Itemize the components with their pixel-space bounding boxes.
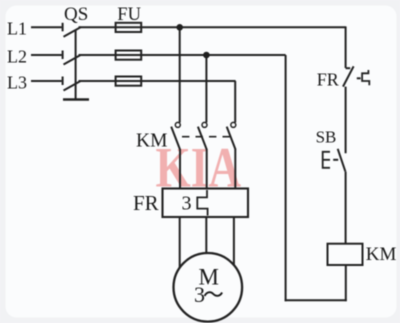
contactor KM main contact 2 terminal circle — [202, 122, 207, 127]
svg-text:SB: SB — [316, 128, 337, 147]
wire FR box to motor phase 1 — [179, 216, 181, 268]
svg-text:L1: L1 — [7, 19, 27, 39]
push button SB actuator dash — [333, 159, 338, 161]
switch QS pole 2 contact tick — [62, 51, 64, 60]
wire bottom run of control circuit — [285, 299, 347, 301]
wire FR contact to SB button — [345, 87, 347, 154]
push button SB blade — [338, 149, 346, 172]
push button SB actuator E — [323, 152, 330, 168]
wire SB button to KM coil — [345, 172, 347, 244]
contactor KM main contact 1 blade — [171, 127, 180, 150]
wire contact 2 to FR box — [206, 149, 208, 190]
switch QS pole 3 blade — [64, 81, 82, 91]
label tilde of 3~ — [205, 292, 223, 296]
wire contact 1 to FR box — [179, 149, 181, 190]
svg-text:L2: L2 — [7, 46, 27, 66]
wire L1 left segment — [31, 26, 62, 28]
wire left vertical of control circuit — [285, 55, 287, 301]
contactor KM main contact 1 terminal circle — [175, 122, 180, 127]
motor M circle — [174, 253, 243, 322]
switch QS pole 2 blade — [64, 55, 82, 65]
relay contact FR fixed terminal tick — [346, 67, 351, 69]
fuse FU 3 — [116, 77, 142, 86]
switch QS pole 3 contact tick — [62, 77, 64, 86]
svg-text:FR: FR — [317, 70, 339, 90]
wire control branch down from L1 corner to FR contact — [345, 26, 347, 68]
wire L3 from QS through FU to corner — [79, 80, 236, 82]
switch QS pole 1 contact tick — [62, 23, 64, 32]
svg-text:3: 3 — [182, 193, 192, 215]
fuse FU 2 — [116, 51, 142, 60]
contactor KM mechanical link dashes — [182, 136, 232, 138]
node junction L1/control branch — [176, 24, 183, 31]
wire L2 from QS through FU to control branch corner — [79, 54, 286, 56]
relay contact FR blade — [343, 66, 354, 86]
relay contact FR actuator symbol — [362, 70, 369, 85]
svg-text:KM: KM — [366, 244, 397, 265]
relay contact FR actuator dash — [357, 77, 361, 79]
switch QS handle bar — [63, 98, 89, 101]
svg-text:3: 3 — [194, 282, 205, 307]
svg-text:FU: FU — [117, 5, 141, 25]
switch QS mechanical link — [75, 30, 77, 99]
contactor KM main contact 3 terminal circle — [231, 122, 236, 127]
svg-text:KM: KM — [136, 131, 167, 152]
wire contact 3 to FR box — [234, 149, 236, 190]
wire FR box to motor phase 3 — [233, 216, 235, 266]
node junction L2/control branch — [203, 52, 210, 59]
svg-text:QS: QS — [64, 4, 88, 25]
fuse FU 1 — [116, 23, 142, 32]
contactor coil KM — [328, 244, 363, 265]
wire drop phase 3 to KM contact — [234, 81, 236, 123]
wire drop phase 1 to KM contact — [179, 27, 181, 122]
wire KM coil to bottom run — [345, 265, 347, 301]
wire L2 left segment — [31, 54, 62, 56]
wire FR box to motor phase 2 — [205, 216, 207, 256]
wire L3 left segment — [31, 80, 62, 82]
thermal relay FR heater box — [163, 189, 249, 218]
wire drop phase 2 to KM contact — [205, 55, 207, 123]
wire L1 from QS through FU to right corner — [79, 26, 346, 28]
svg-text:FR: FR — [133, 191, 159, 215]
switch QS pole 1 blade — [64, 27, 82, 37]
svg-text:L3: L3 — [7, 72, 27, 92]
thermal relay FR heater symbol — [197, 190, 207, 216]
contactor KM main contact 3 blade — [227, 127, 236, 150]
contactor KM main contact 2 blade — [198, 127, 207, 150]
